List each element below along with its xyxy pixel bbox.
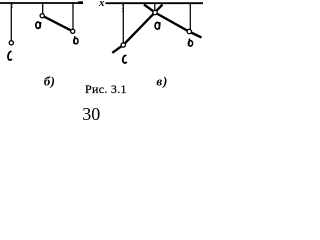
svg-text:Рис. 3.1: Рис. 3.1 — [85, 82, 127, 96]
svg-text:б): б) — [44, 74, 56, 89]
svg-text:в): в) — [156, 74, 168, 89]
svg-text:x: x — [98, 0, 105, 9]
svg-text:30: 30 — [82, 104, 100, 121]
